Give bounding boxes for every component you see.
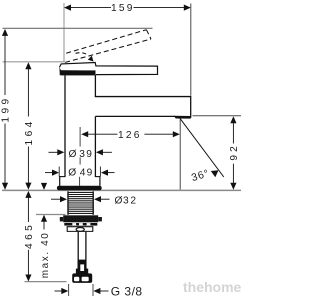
svg-text:92: 92 [229,143,240,160]
svg-text:465: 465 [24,222,35,249]
svg-text:max. 40: max. 40 [40,232,51,279]
svg-text:164: 164 [24,118,35,145]
svg-text:159: 159 [111,3,135,14]
svg-text:49: 49 [80,167,94,178]
svg-text:3/8: 3/8 [124,285,142,299]
svg-text:Ø: Ø [115,195,123,206]
svg-text:32: 32 [123,195,138,206]
svg-text:199: 199 [0,95,11,122]
svg-text:Ø: Ø [69,149,77,160]
svg-text:G: G [111,285,120,299]
svg-text:39: 39 [79,149,93,160]
svg-text:thehome: thehome [183,279,241,295]
svg-text:126: 126 [118,130,142,141]
svg-text:Ø: Ø [68,167,76,178]
